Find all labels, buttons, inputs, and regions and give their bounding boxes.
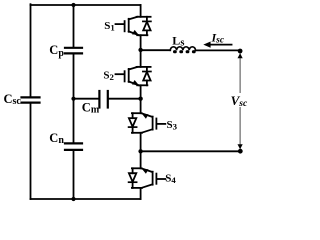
wire: left rail lower (from Csc) xyxy=(30,103,32,199)
wire: leg top bus to S1 xyxy=(140,5,142,17)
wire: top bus xyxy=(31,4,141,6)
svg-text:Ls: Ls xyxy=(172,34,184,49)
wire: mid column top (bus to Cp) xyxy=(73,5,75,47)
wire: bottom bus xyxy=(31,198,141,200)
svg-text:Isc: Isc xyxy=(211,31,225,46)
label Vsc xyxy=(230,93,249,107)
svg-text:Csc: Csc xyxy=(4,92,22,107)
svg-text:Cm: Cm xyxy=(82,100,100,115)
transistor S2 (IGBT with anti-parallel diode) xyxy=(116,67,151,85)
capacitor Cn xyxy=(65,143,82,150)
wire: mid column node M to Cn xyxy=(73,99,75,143)
node: top bus / mid column junction xyxy=(71,3,75,7)
wire: node P to inductor Ls xyxy=(141,49,170,51)
svg-text:Cp: Cp xyxy=(49,43,64,59)
capacitor Cp xyxy=(65,48,82,54)
inductor Ls xyxy=(170,47,195,51)
current arrow Isc xyxy=(209,44,232,46)
svg-text:S2: S2 xyxy=(103,69,114,82)
svg-text:S1: S1 xyxy=(104,20,115,33)
wire: node N to bottom terminal xyxy=(141,150,239,152)
terminal: Vsc positive (top right) xyxy=(238,49,243,54)
svg-text:S3: S3 xyxy=(167,119,178,132)
node N: S3-S4 junction (output) xyxy=(138,149,142,153)
wire: leg S3 to S4 (node N) xyxy=(140,133,142,169)
node: bottom bus / mid column junction xyxy=(71,197,75,201)
wire: mid column Cp to node M xyxy=(73,54,75,98)
svg-text:S4: S4 xyxy=(165,173,176,186)
capacitor Cm (midpoint clamp) xyxy=(99,91,107,108)
terminal: Vsc negative (bottom right) xyxy=(238,149,243,154)
node P: S1-S2 junction (inductor tap) xyxy=(138,48,142,52)
node M2: S2-S3 junction (Cm tap) xyxy=(138,97,142,101)
wire: inductor Ls to top terminal xyxy=(196,49,239,51)
wire: left rail upper (to Csc) xyxy=(30,4,32,96)
voltage arrow Vsc (double-headed) xyxy=(239,54,241,148)
wire: leg S4 to bottom bus xyxy=(140,188,142,199)
wire: Cm right lead to leg xyxy=(109,98,141,100)
capacitor Csc (supercapacitor) xyxy=(22,97,40,102)
svg-text:Cn: Cn xyxy=(49,131,64,146)
wire: Cm left lead xyxy=(74,98,99,100)
wire: mid column Cn to bottom bus xyxy=(73,151,75,199)
node M: mid column / Cm junction xyxy=(71,97,75,101)
wire: leg S1 to S2 (node P) xyxy=(140,35,142,67)
transistor S1 (IGBT with anti-parallel diode) xyxy=(116,17,151,35)
transistor S4 (IGBT with anti-parallel diode, inverted) xyxy=(129,168,166,188)
wire: leg S2 to S3 (node M2) xyxy=(140,85,142,113)
transistor S3 (IGBT with anti-parallel diode, inverted) xyxy=(129,113,166,133)
